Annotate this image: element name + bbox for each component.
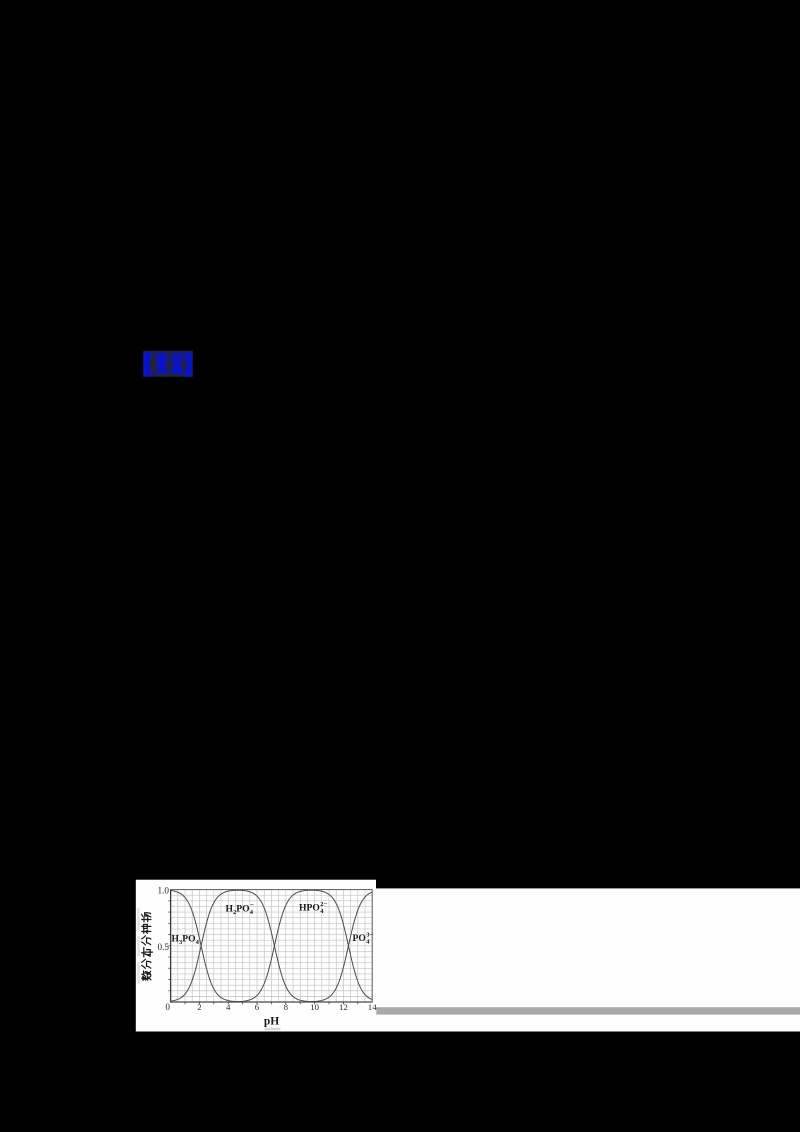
svg-text:PO: PO — [353, 933, 366, 944]
svg-text:H3PO4: H3PO4 — [172, 934, 200, 946]
svg-text:2: 2 — [197, 1002, 201, 1012]
svg-text:pH: pH — [264, 1016, 279, 1028]
svg-text:4: 4 — [226, 1002, 231, 1012]
svg-text:10: 10 — [310, 1002, 319, 1012]
svg-text:H2PO: H2PO — [226, 904, 250, 916]
svg-text:8: 8 — [284, 1002, 289, 1012]
svg-text:0: 0 — [165, 1002, 170, 1012]
svg-text:14: 14 — [368, 1002, 377, 1012]
svg-text:0.5: 0.5 — [158, 942, 170, 952]
svg-text:HPO: HPO — [299, 903, 320, 914]
svg-text:1.0: 1.0 — [158, 885, 170, 895]
svg-text:−: − — [250, 900, 255, 909]
svg-text:3−: 3− — [366, 932, 373, 939]
svg-text:6: 6 — [255, 1002, 260, 1012]
svg-text:12: 12 — [339, 1002, 348, 1012]
svg-text:2−: 2− — [320, 901, 327, 908]
